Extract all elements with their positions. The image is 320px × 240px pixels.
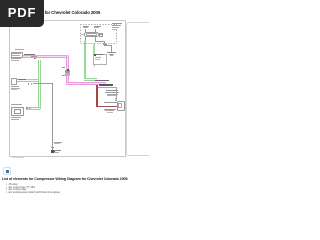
connector dashes on grey jumper bbox=[28, 83, 29, 85]
wire relay pin to ground: vertical stub bbox=[95, 37, 96, 42]
label mid grey wire bbox=[54, 142, 62, 143]
pink wire horizontal from component A bbox=[23, 55, 68, 58]
label on lower pink bbox=[99, 84, 113, 85]
fuse 2 lead bbox=[94, 29, 97, 32]
right side card bbox=[126, 22, 166, 156]
label text right of fuse box bbox=[112, 23, 122, 24]
green main vertical (left) bbox=[38, 60, 41, 110]
clutch coil symbol bbox=[118, 103, 122, 109]
relay inner contact bbox=[86, 33, 97, 36]
PDF badge bbox=[0, 0, 44, 27]
clutch labels below bbox=[104, 109, 116, 110]
component A text below bbox=[11, 57, 21, 60]
stub below connector box bbox=[93, 65, 96, 67]
a/c compressor clutch box bbox=[117, 101, 125, 111]
clutch labels above bbox=[106, 90, 118, 91]
component A (HVAC controls) text above bbox=[15, 48, 24, 51]
pink wire lower horizontal bbox=[66, 82, 106, 85]
grey top lead to clutch bbox=[104, 101, 117, 104]
connector tick on grey wire bbox=[51, 147, 54, 149]
relay pin box bbox=[99, 33, 102, 37]
connector ticks at clutch bbox=[115, 97, 116, 100]
pink wire vertical bbox=[66, 55, 69, 85]
connector pin labels bbox=[62, 66, 65, 69]
faint caption under page bbox=[12, 156, 24, 159]
label above lower pink bbox=[95, 80, 109, 81]
fuse 1 lead bbox=[84, 29, 87, 32]
title text bbox=[0, 10, 100, 15]
wire jog right bbox=[104, 44, 111, 47]
grey loop top bbox=[98, 86, 117, 89]
green wire 1 vertical (relay output) bbox=[84, 41, 87, 80]
wire down to ground G bbox=[111, 45, 112, 52]
component D text below bbox=[11, 85, 19, 88]
label on green branch bbox=[18, 79, 26, 80]
tick below pink at green tee bbox=[34, 58, 36, 59]
relay lead left bbox=[81, 33, 84, 36]
grey stub below relay left pin bbox=[84, 37, 87, 41]
ground symbol top right bbox=[107, 52, 116, 53]
green wire 2 vertical bbox=[93, 44, 95, 54]
green branch horizontal from component D bbox=[17, 79, 41, 82]
dark red wire vertical bbox=[96, 85, 97, 107]
green wire 1 horizontal bbox=[84, 78, 97, 81]
component A box bbox=[11, 52, 23, 58]
grey loop right bbox=[115, 87, 118, 101]
wire horizontal inside fuse box bbox=[95, 41, 105, 42]
relay pin dot bbox=[100, 34, 101, 35]
component B inner box bbox=[14, 109, 21, 114]
fuse 1 label bbox=[83, 26, 89, 27]
image icon bbox=[3, 167, 11, 175]
component B outer box bbox=[11, 107, 24, 117]
inline connector on pink vertical bbox=[65, 70, 71, 72]
wire label on pink bbox=[24, 54, 35, 55]
dark red wire bottom horizontal bbox=[96, 106, 117, 107]
grey jumper horizontal bbox=[33, 83, 54, 84]
connector dashes on green bottom bbox=[26, 107, 27, 109]
bullets bbox=[6, 183, 18, 186]
wire down through box edge bbox=[103, 41, 106, 46]
underhood fuse block dashed box bbox=[80, 24, 117, 25]
component B text below bbox=[11, 116, 21, 119]
page border of diagram bbox=[9, 20, 126, 157]
heading bbox=[2, 177, 128, 181]
component D (pressure switch) box bbox=[11, 78, 17, 85]
component B text above bbox=[11, 103, 23, 106]
connector label box below fuse box bbox=[93, 54, 107, 66]
green bottom horizontal to component B bbox=[26, 107, 41, 110]
connector ticks at box exit bbox=[103, 43, 105, 46]
grey wire long vertical to ground bbox=[52, 83, 53, 152]
A/C comp relay capsule bbox=[84, 32, 100, 37]
ground symbol bottom bbox=[51, 150, 55, 153]
fuse 2 label bbox=[94, 26, 101, 27]
